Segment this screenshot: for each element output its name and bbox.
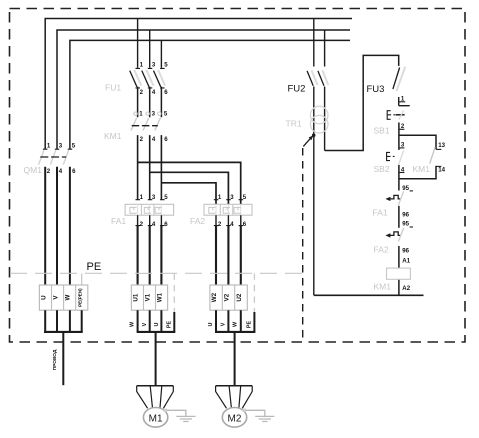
svg-text:W: W <box>65 295 72 301</box>
wires FA2 to terminal block X3 <box>216 215 241 285</box>
wires FA1 to terminal block X2 <box>138 215 162 285</box>
push button SB2 <box>387 151 404 165</box>
wire SB1 to SB2 <box>398 123 400 150</box>
terminal block X1 <box>39 285 87 310</box>
QM1 label <box>24 165 43 175</box>
fuse FU2 <box>307 70 328 86</box>
svg-text:PE: PE <box>166 321 172 329</box>
TR1 label <box>286 119 302 129</box>
svg-text:3: 3 <box>230 194 234 201</box>
svg-text:A2: A2 <box>402 285 410 292</box>
node TR1 secondary common <box>312 134 316 296</box>
feeder cable label <box>52 349 58 370</box>
wire coil return <box>314 294 424 296</box>
bus L3 <box>70 40 350 149</box>
wires X3 to motor M2 cable <box>208 310 256 385</box>
svg-text:PE: PE <box>87 261 102 273</box>
terminal block X2 <box>131 285 167 310</box>
FA2 label <box>190 216 205 226</box>
pin 95 FA2 <box>402 221 413 228</box>
FA1 label <box>111 216 126 226</box>
PE label <box>87 261 102 273</box>
motor M2 <box>216 386 253 427</box>
thermal relay FA2 <box>204 194 252 228</box>
svg-text:U2: U2 <box>236 293 243 301</box>
svg-text:FA2: FA2 <box>374 244 389 254</box>
wire L2 to FU1 <box>149 30 151 68</box>
KM1 label <box>104 131 122 141</box>
pin 4 <box>399 166 405 173</box>
bus L1 <box>45 19 352 150</box>
wire SB2 to FA1 contact <box>398 165 400 191</box>
contact FA2 trip <box>385 228 403 242</box>
KM1 coil label <box>374 281 392 291</box>
svg-text:14: 14 <box>438 167 445 174</box>
wire tap phase B to FA2 <box>150 172 229 204</box>
enclosure dashed border <box>10 9 466 343</box>
svg-text:3: 3 <box>59 143 63 150</box>
svg-text:SB2: SB2 <box>374 164 390 174</box>
wire L1 to FU2 <box>313 19 315 67</box>
svg-text:KM1: KM1 <box>104 131 122 141</box>
svg-text:PE(PEN): PE(PEN) <box>78 288 83 307</box>
wires FU1 to KM1 <box>138 87 162 118</box>
PE drop to X1 <box>81 273 83 285</box>
wire TR1 to FU3 <box>325 55 399 150</box>
svg-text:FU3: FU3 <box>367 84 385 95</box>
svg-text:ПРОВОД: ПРОВОД <box>52 349 58 370</box>
earth link dashed <box>302 148 304 341</box>
fuse FU1 <box>130 61 169 95</box>
wire KM1 aux return <box>399 166 436 179</box>
bus L2 <box>57 30 350 149</box>
wire branch to KM1 aux 13 <box>399 135 436 149</box>
wire L3 to FU1 <box>160 40 162 67</box>
svg-text:96: 96 <box>402 211 409 218</box>
PE rail dashed (enclosure) <box>10 272 310 274</box>
svg-text:U: U <box>154 322 160 326</box>
svg-text:V: V <box>220 322 226 326</box>
contactor KM1 main contacts <box>131 111 168 144</box>
svg-text:TR1: TR1 <box>286 119 302 129</box>
wire tap phase A to FA2 <box>138 162 241 204</box>
wires QM1 to terminal block X1 <box>45 167 70 285</box>
pin A1 <box>402 258 410 265</box>
svg-text:QM1: QM1 <box>24 165 43 175</box>
svg-text:FA1: FA1 <box>111 216 126 226</box>
svg-text:V: V <box>142 322 148 326</box>
pin 14 <box>436 166 446 173</box>
wire FA2 to coil <box>398 246 400 295</box>
svg-text:KM1: KM1 <box>413 164 431 174</box>
PE drop to X2 <box>173 273 175 312</box>
svg-text:V1: V1 <box>145 293 152 301</box>
pin 1 <box>399 95 406 102</box>
wire L1 to FU1 <box>137 19 139 68</box>
svg-text:FA2: FA2 <box>190 216 205 226</box>
KM1 aux label <box>413 164 431 174</box>
wire FU2 to TR1 <box>314 87 325 151</box>
switch QM1 <box>39 143 77 175</box>
svg-text:4: 4 <box>59 168 63 175</box>
FU2 label <box>288 84 306 95</box>
svg-text:95: 95 <box>402 221 409 228</box>
SB1 label <box>374 125 390 135</box>
SB2 label <box>374 164 390 174</box>
pin 96 FA1 <box>402 211 409 218</box>
svg-text:U1: U1 <box>133 293 140 301</box>
pin 2 <box>399 123 405 130</box>
fuse FU3 <box>393 67 405 106</box>
push button SB1 <box>387 106 410 120</box>
pin 95 FA1 <box>402 185 413 192</box>
svg-text:M1: M1 <box>149 413 163 424</box>
contact KM1 aux <box>430 147 435 163</box>
transformer TR1 <box>310 106 328 133</box>
FU3 label <box>367 84 385 95</box>
svg-text:4: 4 <box>230 221 234 228</box>
FA1 contact label <box>373 208 388 218</box>
motor M1 <box>137 386 174 427</box>
svg-text:KM1: KM1 <box>374 281 392 291</box>
ground M1 <box>164 409 196 422</box>
wires KM1 to FA1 <box>138 135 162 200</box>
terminal block X3 <box>210 285 247 310</box>
PE drop to X3 <box>253 273 255 312</box>
svg-text:SB1: SB1 <box>374 125 390 135</box>
wire tap phase C to FA2 <box>161 183 216 204</box>
svg-text:1: 1 <box>139 111 143 118</box>
thermal relay FA1 <box>125 194 174 228</box>
FA2 contact label <box>374 244 389 254</box>
svg-text:U: U <box>40 295 47 300</box>
pin 3 <box>399 141 405 148</box>
svg-text:95: 95 <box>402 185 409 192</box>
wire FA1 to FA2 contact <box>398 206 400 228</box>
svg-text:96: 96 <box>402 248 409 255</box>
svg-text:W1: W1 <box>157 292 164 302</box>
svg-text:FA1: FA1 <box>373 208 388 218</box>
svg-text:M2: M2 <box>228 413 242 424</box>
svg-text:2: 2 <box>47 168 51 175</box>
earthing arrow at TR1 <box>303 135 313 146</box>
svg-text:13: 13 <box>438 142 445 149</box>
coil KM1 <box>387 268 411 279</box>
wire L2 to FU2 <box>324 30 326 67</box>
ground M2 <box>243 409 275 422</box>
pin A2 <box>402 285 410 292</box>
wires X1 to feeder cable <box>44 310 83 385</box>
pin 13 <box>436 142 446 149</box>
svg-text:V2: V2 <box>223 293 230 301</box>
svg-text:FU2: FU2 <box>288 84 306 95</box>
svg-text:U: U <box>208 322 214 326</box>
pin 96 FA2 <box>402 248 409 255</box>
wires X2 to motor M1 cable <box>130 310 176 385</box>
svg-text:PE: PE <box>246 321 252 329</box>
svg-text:A1: A1 <box>402 258 410 265</box>
svg-text:FU1: FU1 <box>105 82 121 92</box>
svg-text:W2: W2 <box>211 292 218 302</box>
FU1 label <box>105 82 121 92</box>
contact FA1 trip <box>385 191 403 205</box>
